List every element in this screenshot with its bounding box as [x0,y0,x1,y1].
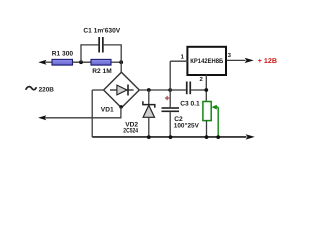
VD1 inner diode triangle [117,85,127,95]
wire: pin 1 vertical down to input node [169,61,171,90]
C3 right plate [189,82,191,95]
svg-text:КР142ЕН8Б: КР142ЕН8Б [190,58,223,65]
arrow: rail right terminal [246,134,255,139]
wire: C1 right lead vertical [120,45,122,62]
C2 polarity plus [165,96,169,100]
junction node: VD2 top [147,88,151,92]
wire: C2 bottom lead [169,112,171,137]
VD1 inner diode cathode bar [127,85,129,96]
resistor R1 [52,59,73,65]
wire: C3 left lead [170,89,186,91]
wire: bridge left vertex to left vertical [92,89,103,91]
junction node: bridge bottom vertex [119,105,123,109]
resistor R2 [91,59,111,65]
zener diode VD2 [123,90,155,137]
C2 bottom plate [162,111,180,113]
arrow: left-pointing terminal of top wire [38,60,46,65]
wire: pin 1 lead [170,60,188,62]
wire: VD2 bottom lead [148,117,150,137]
wire: C3 right lead [191,89,206,91]
wire: pin 3 output lead [227,59,246,61]
wire: wiper to green vertical [217,106,219,108]
junction node: C2 on rail [169,135,173,139]
svg-text:C1 1m'630V: C1 1m'630V [83,27,120,34]
capacitor C1 [80,27,121,62]
wire: R2 to bridge top node [111,61,121,63]
U1 body [187,47,226,75]
wire: left vertical (bridge to bottom rail corner) [91,90,93,137]
capacitor C3 [170,82,206,108]
wire: C1 left lead horizontal [80,44,98,46]
wire: bottom ground rail [92,136,246,138]
svg-text:100"25V: 100"25V [174,123,200,130]
voltage regulator U1 KR142EN8B [170,47,277,102]
wire: bridge top vertex lead [120,62,122,72]
junction node: R3 on rail [205,135,209,139]
wire: C1 right lead horizontal [104,44,122,46]
bridge rectifier VD1 [101,62,140,113]
wire: green vertical to rail [217,107,219,137]
AC tilde symbol [26,87,37,90]
wire: VD2 top lead [148,90,150,105]
VD1 diamond body [104,72,140,108]
svg-text:VD1: VD1 [101,106,114,113]
C1 left plate [98,37,100,53]
junction node: VD2 on rail [147,135,151,139]
junction node: wiper on rail [216,135,220,139]
svg-text:R2 1M: R2 1M [92,68,112,75]
potentiometer R3 (green) [203,102,218,138]
C1 right plate [102,37,104,53]
wire: R1 to R2 [73,61,92,63]
junction node: bridge top / C1 right tap [119,60,123,64]
svg-text:2С524: 2С524 [123,128,138,135]
svg-text:C3 0.1: C3 0.1 [180,100,200,107]
VD2 cathode bar with zener ticks [143,101,155,108]
R3 body [203,102,211,121]
capacitor C2 [162,88,200,137]
C3 left plate [186,82,188,95]
junction node: pin2 / C3 right [204,88,208,92]
C2 top plate [162,107,180,109]
wire: C2 top lead [169,90,171,107]
junction node: C1 left tap [79,60,83,64]
arrow: AC input left terminal [38,115,46,120]
VD1 inner diode lead [110,89,134,91]
svg-text:220В: 220В [39,86,55,93]
wire: AC input line [43,117,122,119]
wire: C1 left lead vertical [80,45,82,62]
svg-text:+ 12В: + 12В [258,58,277,65]
arrow: output terminal [245,58,254,63]
VD2 triangle [143,105,154,117]
wire: R3 bottom lead [206,121,208,138]
junction node: C2 / pin1 tap [168,88,172,92]
wire: top AC line from left arrow to R1 [43,61,52,63]
wire: bridge bottom vertex down link [120,107,122,118]
wire: pin 2 vertical [205,75,207,102]
svg-text:R1 300: R1 300 [52,50,74,57]
wire: bridge right vertex to VD2 node [139,89,170,91]
R3 wiper arrow [212,105,217,110]
